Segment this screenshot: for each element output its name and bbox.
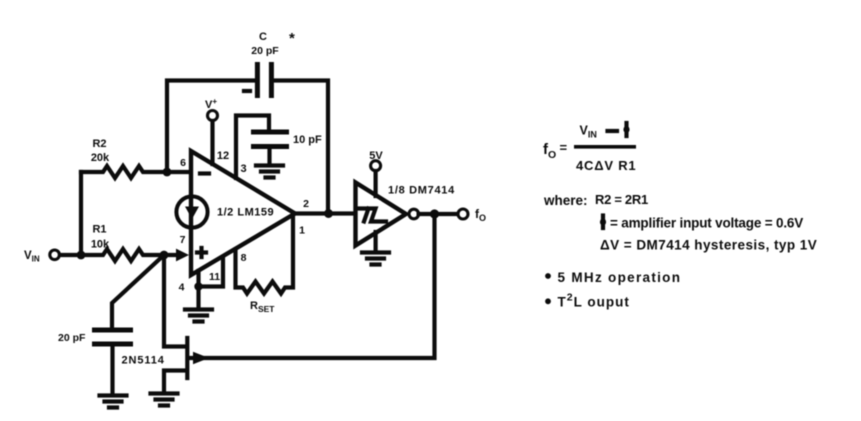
svg-text:= amplifier input voltage = 0.: = amplifier input voltage = 0.6V <box>610 216 803 231</box>
svg-text:5 MHz operation: 5 MHz operation <box>558 270 682 285</box>
svg-text:4CΔV R1: 4CΔV R1 <box>576 158 636 173</box>
svg-text:*: * <box>289 30 295 47</box>
svg-text:11: 11 <box>209 271 220 283</box>
svg-text:12: 12 <box>217 150 229 162</box>
svg-text:20k: 20k <box>91 152 110 164</box>
svg-text:1/8 DM7414: 1/8 DM7414 <box>388 185 455 197</box>
svg-text:10 pF: 10 pF <box>293 134 322 146</box>
svg-text:C: C <box>259 31 267 43</box>
svg-text:5V: 5V <box>369 150 383 162</box>
svg-text:8: 8 <box>241 252 247 264</box>
svg-text:1/2 LM159: 1/2 LM159 <box>217 207 274 219</box>
svg-text:20 pF: 20 pF <box>251 45 279 57</box>
svg-text:ΔV = DM7414 hysteresis, typ 1V: ΔV = DM7414 hysteresis, typ 1V <box>600 238 817 253</box>
svg-text:2: 2 <box>303 198 309 210</box>
svg-text:R2: R2 <box>92 138 106 150</box>
svg-text:2N5114: 2N5114 <box>122 355 165 367</box>
svg-text:1: 1 <box>299 225 305 237</box>
svg-text:where:: where: <box>543 193 588 208</box>
svg-text:4: 4 <box>179 282 185 294</box>
svg-text:R2 = 2R1: R2 = 2R1 <box>595 192 648 207</box>
svg-text:=: = <box>560 140 568 155</box>
svg-text:10k: 10k <box>91 239 110 251</box>
svg-text:6: 6 <box>180 157 186 169</box>
svg-text:3: 3 <box>240 163 246 175</box>
svg-text:R1: R1 <box>92 224 106 236</box>
svg-text:7: 7 <box>180 234 186 246</box>
svg-text:20 pF: 20 pF <box>58 332 86 344</box>
